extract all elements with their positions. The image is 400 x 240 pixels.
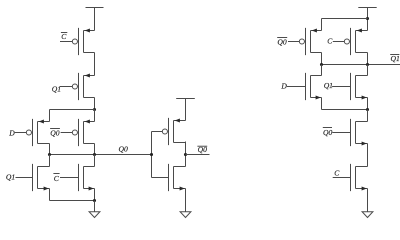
label Q0-bar for M4 [50,128,60,137]
nmos M11 (gate D) [287,73,322,100]
label C-bar for M1 [61,32,67,41]
junction dot bottom rail [93,199,96,202]
node Q1-bar horizontal wire [322,64,400,66]
nmos M14 (gate C) [333,164,368,191]
svg-text:Q1: Q1 [6,173,15,182]
ground symbol (inverter) [180,212,191,218]
pmos M10 (gate C) [333,28,368,55]
wire VDD rail to left [322,18,368,20]
junction dot inverter output [184,153,187,156]
wire M4 drain to node Q0 [94,144,96,155]
VDD supply symbol (right block) [358,8,376,31]
wire bottom rail left block [50,200,95,202]
label Q1 for M2 [52,84,61,93]
svg-text:Q0: Q0 [323,128,332,137]
wire M10 drain to node Q1-bar [367,53,369,65]
junction dot node P [93,108,96,111]
wire left branch down to M3 source [49,110,51,122]
wire node to M11 drain [321,65,323,76]
nmos M13 (gate Q0-bar) [332,119,367,146]
wire M1 drain to M2 source [94,53,96,76]
VDD supply symbol (inverter) [176,99,195,121]
svg-text:D: D [280,82,287,91]
junction dot Q1-bar right [366,63,369,66]
ground symbol (left block) [89,212,100,218]
label C-bar for M6 [53,174,59,184]
svg-text:Q1: Q1 [52,84,61,93]
wire M11 source down [321,98,323,110]
pmos M2 (gate Q1) [60,73,95,100]
wire rail to M13 drain [367,110,369,122]
label Q0-bar for M13 [323,128,333,138]
wire M7 drain to output node [185,142,187,167]
svg-text:Q1: Q1 [324,81,333,90]
label C for M14 [334,169,340,178]
wire rail down to M9 source [321,19,323,31]
label Q1 for M12 [324,81,333,90]
pmos M7 (inverter pull-up) [162,118,185,145]
wire M2 drain to node P [94,98,96,110]
junction dot VDD rail [366,17,369,20]
wire mid rail right block [322,109,368,111]
wire node to M12 drain [367,65,369,76]
wire riser to M8 gate [152,177,169,179]
junction dot Q0 left [48,153,51,156]
label D for M3 [8,128,15,137]
svg-text:Q1: Q1 [391,54,400,63]
label Q0 node [119,144,128,153]
wire M5 source down [49,189,51,201]
junction dot mid rail [366,108,369,111]
wire M9 drain to node Q1-bar [321,53,323,65]
wire node Q0 to M6 drain [94,155,96,167]
ground symbol (right block) [362,212,373,218]
wire M6 source down [94,189,96,201]
nmos M12 (gate Q1) [332,73,367,100]
nmos M8 (inverter pull-down) [169,164,186,191]
wire M8 source to ground [185,189,187,212]
label Q0-bar output node [197,145,207,154]
label Q1-bar node [390,54,400,63]
wire M12 source down [367,98,369,110]
node Q0-bar output stub [186,154,210,156]
wire input riser [151,132,153,178]
svg-text:D: D [8,128,15,137]
svg-text:Q0: Q0 [119,144,128,153]
pmos M9 (gate Q0-bar) [288,28,322,55]
wire rail node P to left branch [50,109,95,111]
wire M3 drain to node Q0 [49,144,51,155]
junction dot Q1-bar left [320,63,323,66]
wire M14 source to ground [367,189,369,212]
wire riser to M7 gate bubble [152,131,163,133]
label C for M10 [327,36,333,45]
wire node Q0 to M5 drain [49,155,51,167]
label Q1 for M5 [6,173,15,182]
label D for M11 [280,82,287,91]
label Q0-bar for M9 [277,38,287,47]
VDD supply symbol (left block) [86,8,104,31]
pmos M1 (gate C-bar) [60,28,95,55]
svg-text:Q0: Q0 [50,128,59,137]
node Q0 horizontal wire [50,154,152,156]
wire node P down to M4 source [94,110,96,122]
nmos M6 (gate C-bar) [60,164,95,191]
wire to ground left [94,201,96,212]
junction dot inverter input [150,153,153,156]
nmos M5 (gate Q1) [16,164,50,191]
pmos M4 (gate Q0-bar) [61,119,95,146]
wire M13 source to M14 drain [367,144,369,167]
svg-text:Q0: Q0 [198,145,207,154]
junction dot Q0 mid [93,153,96,156]
pmos M3 (gate D) [15,119,50,146]
svg-text:Q0: Q0 [277,38,286,47]
